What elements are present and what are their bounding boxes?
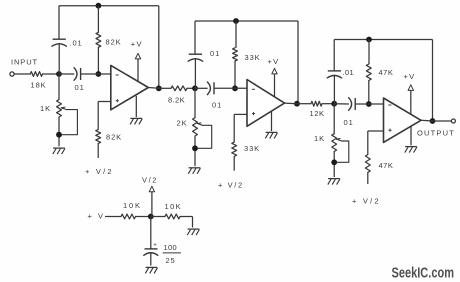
svg-text:V/2: V/2 (142, 176, 158, 185)
svg-text:33K: 33K (245, 53, 261, 62)
svg-text:100: 100 (164, 243, 177, 252)
svg-text:1K: 1K (314, 134, 325, 143)
svg-text:.01: .01 (70, 39, 83, 48)
svg-text:1K: 1K (40, 104, 51, 113)
svg-text:47K: 47K (379, 68, 394, 77)
svg-text:2K: 2K (177, 119, 188, 128)
svg-text:82K: 82K (106, 38, 122, 47)
svg-text:+: + (153, 242, 157, 248)
svg-text:01: 01 (344, 118, 354, 127)
svg-text:10K: 10K (165, 202, 183, 211)
svg-text:+ V: + V (88, 212, 105, 221)
svg-text:8.2K: 8.2K (168, 96, 185, 105)
svg-text:33K: 33K (244, 144, 260, 153)
svg-text:+V: +V (268, 57, 280, 66)
svg-text:12K: 12K (310, 109, 325, 118)
svg-text:01: 01 (75, 83, 85, 92)
svg-text:SeekIC.com: SeekIC.com (392, 266, 455, 282)
svg-text:+V: +V (404, 72, 416, 81)
svg-text:82K: 82K (106, 132, 122, 141)
svg-text:INPUT: INPUT (11, 57, 38, 66)
svg-text:01: 01 (210, 49, 220, 58)
svg-text:+ V/2: + V/2 (218, 180, 244, 189)
svg-text:OUTPUT: OUTPUT (417, 128, 455, 137)
svg-text:+ V/2: + V/2 (352, 196, 381, 205)
svg-text:+V: +V (131, 40, 143, 49)
svg-text:.01: .01 (343, 68, 355, 77)
svg-text:25: 25 (166, 256, 176, 265)
svg-text:47K: 47K (379, 161, 394, 170)
svg-text:01: 01 (212, 100, 222, 109)
svg-text:10K: 10K (123, 201, 142, 210)
svg-text:18K: 18K (31, 80, 47, 89)
svg-text:+ V/2: + V/2 (85, 167, 114, 176)
